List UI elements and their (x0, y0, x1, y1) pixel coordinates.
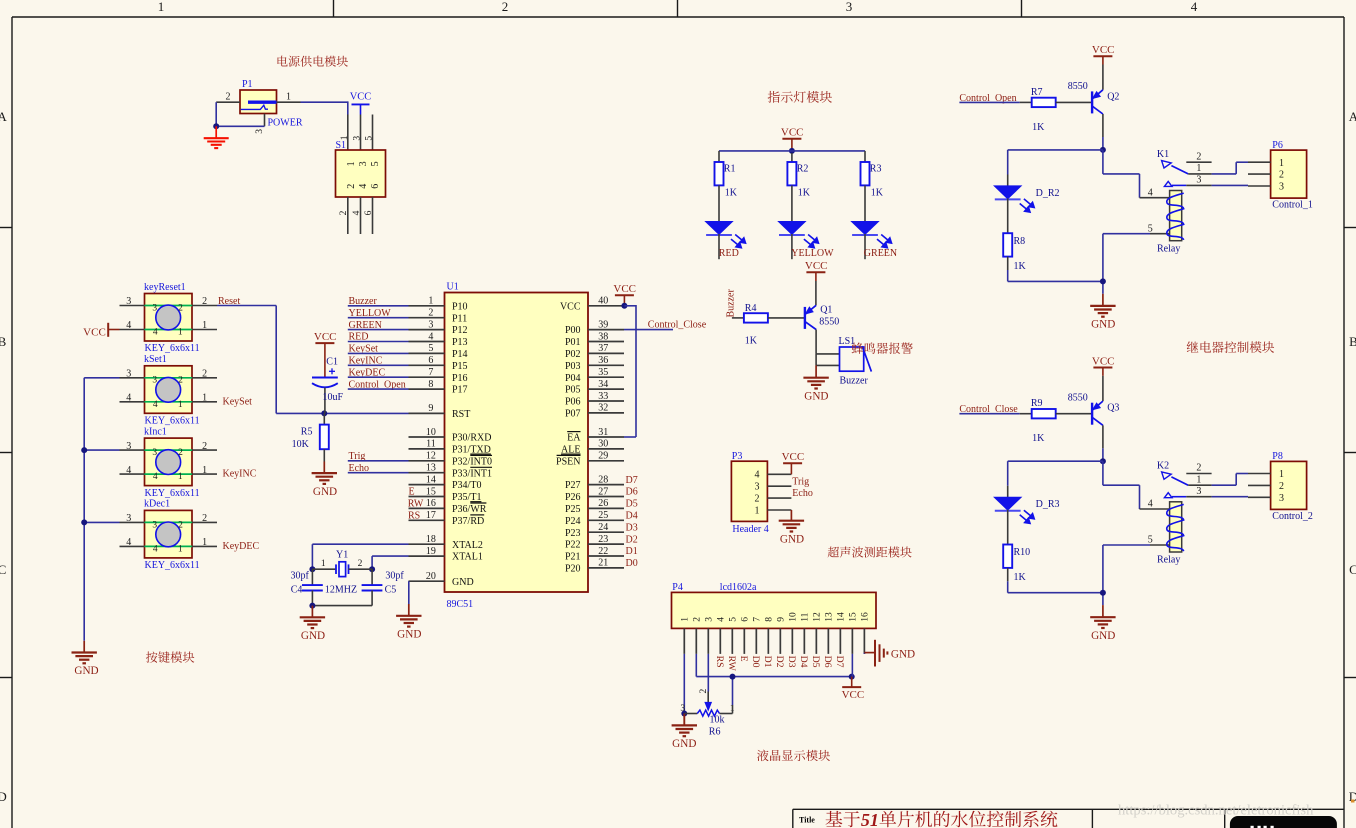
net label D5 (626, 499, 638, 510)
svg-text:3: 3 (353, 136, 363, 141)
svg-text:GND: GND (74, 665, 98, 677)
svg-text:P15: P15 (452, 361, 468, 372)
svg-text:P30/RXD: P30/RXD (452, 433, 491, 444)
net label Control_Close (648, 320, 707, 331)
wire RST row (276, 412, 408, 414)
svg-text:P14: P14 (452, 349, 468, 360)
net label KeyDEC (223, 541, 260, 552)
svg-text:Header 4: Header 4 (732, 524, 768, 535)
wire (1212, 184, 1248, 186)
svg-text:Buzzer: Buzzer (725, 289, 736, 318)
svg-text:Echo: Echo (792, 488, 813, 499)
svg-text:3: 3 (152, 448, 157, 458)
svg-text:30: 30 (598, 439, 608, 450)
svg-text:R7: R7 (1031, 87, 1043, 98)
net label GREEN (864, 248, 897, 259)
svg-text:3: 3 (126, 369, 131, 380)
net label KeySet (349, 344, 379, 355)
svg-text:30pf: 30pf (291, 571, 310, 582)
svg-text:P27: P27 (565, 480, 581, 491)
svg-text:3: 3 (755, 482, 760, 493)
resistor R4 (732, 303, 806, 347)
wire relay pin5 to ground node (1103, 234, 1150, 294)
wire (348, 341, 409, 343)
label 蜂鸣器报警 (852, 342, 913, 353)
svg-text:K1: K1 (1157, 149, 1169, 160)
svg-text:2: 2 (346, 184, 357, 189)
junction (81, 447, 87, 453)
relay K1 (1140, 149, 1212, 254)
svg-text:3: 3 (126, 296, 131, 307)
svg-text:P34/T0: P34/T0 (452, 480, 481, 491)
svg-text:KeyDEC: KeyDEC (223, 541, 260, 552)
svg-text:27: 27 (598, 486, 608, 497)
svg-text:R3: R3 (870, 164, 882, 175)
svg-text:2: 2 (202, 296, 207, 307)
wire (959, 413, 1019, 415)
ground GND (buzzer) (803, 365, 828, 402)
svg-text:34: 34 (598, 379, 608, 390)
svg-text:D6: D6 (822, 656, 833, 668)
net label KeyINC (349, 356, 383, 367)
svg-text:4: 4 (126, 320, 131, 331)
svg-text:RED: RED (719, 248, 739, 259)
svg-text:R6: R6 (709, 726, 721, 737)
svg-text:1: 1 (681, 617, 691, 622)
net label Control_Open (349, 379, 406, 390)
power port VCC (C1) (314, 331, 337, 377)
svg-text:C: C (1349, 562, 1356, 577)
wire VCC to EA (624, 305, 636, 437)
svg-text:D2: D2 (774, 656, 785, 668)
svg-text:51: 51 (861, 810, 879, 828)
svg-text:1: 1 (202, 320, 207, 331)
svg-text:1: 1 (202, 393, 207, 404)
net label D1 (rotated) (762, 656, 773, 668)
svg-text:3: 3 (255, 129, 265, 134)
wire to LED D_R3 (1008, 461, 1103, 486)
svg-text:GND: GND (804, 390, 828, 402)
junction (213, 123, 219, 129)
net label Buzzer (349, 296, 378, 307)
wire relay to P6 (1212, 162, 1248, 174)
svg-text:P12: P12 (452, 325, 468, 336)
wire Control_Close (624, 329, 673, 331)
module title 按键模块 (146, 651, 194, 662)
svg-text:kSet1: kSet1 (144, 354, 167, 365)
transistor Q3 (1068, 376, 1120, 449)
svg-text:8: 8 (428, 379, 433, 390)
svg-text:1K: 1K (1032, 433, 1045, 444)
svg-text:P25: P25 (565, 504, 581, 515)
svg-text:32: 32 (598, 403, 608, 414)
svg-text:3: 3 (126, 513, 131, 524)
svg-text:16: 16 (426, 498, 436, 509)
MCU U1 89C51 (409, 282, 625, 611)
svg-text:1: 1 (1196, 163, 1201, 174)
capacitor C4 (291, 569, 323, 605)
svg-text:VCC: VCC (1092, 44, 1115, 56)
svg-text:30pf: 30pf (385, 571, 404, 582)
net label RW (408, 499, 424, 510)
svg-text:6: 6 (364, 210, 374, 215)
svg-text:4: 4 (358, 184, 369, 189)
svg-text:P4: P4 (672, 582, 683, 593)
svg-text:4: 4 (153, 400, 158, 410)
svg-text:D7: D7 (626, 475, 638, 486)
svg-text:B: B (1349, 334, 1356, 349)
power port VCC (buzzer) (805, 260, 828, 281)
svg-text:Q3: Q3 (1107, 403, 1119, 414)
svg-text:2: 2 (428, 308, 433, 319)
wire P1 pin1 to S1 (301, 101, 348, 114)
svg-text:GND: GND (1091, 319, 1115, 331)
svg-text:4: 4 (755, 470, 760, 481)
junction (789, 148, 795, 154)
svg-text:D3: D3 (626, 522, 638, 533)
svg-text:KEY_6x6x11: KEY_6x6x11 (145, 488, 200, 499)
net label KeySet (223, 396, 253, 407)
svg-text:P11: P11 (452, 313, 467, 324)
power port VCC (Q2) (1092, 44, 1115, 65)
svg-text:R5: R5 (301, 426, 313, 437)
push button kSet1 (120, 354, 218, 426)
svg-text:P3: P3 (732, 451, 743, 462)
svg-text:D5: D5 (626, 499, 638, 510)
wire key common bus (84, 378, 119, 641)
svg-text:3: 3 (126, 441, 131, 452)
svg-text:P00: P00 (565, 325, 581, 336)
svg-text:VCC: VCC (1092, 355, 1115, 367)
svg-text:18: 18 (426, 534, 436, 545)
svg-text:11: 11 (426, 439, 436, 450)
svg-text:P22: P22 (565, 540, 581, 551)
svg-text:C1: C1 (326, 356, 338, 367)
svg-text:1: 1 (178, 328, 183, 338)
svg-text:D7: D7 (834, 656, 845, 668)
svg-text:3: 3 (152, 376, 157, 386)
module title 继电器控制模块 (1187, 341, 1274, 353)
net label Echo (349, 463, 370, 474)
svg-text:P05: P05 (565, 385, 581, 396)
svg-text:D3: D3 (786, 656, 797, 668)
svg-text:1: 1 (202, 537, 207, 548)
wire P4 pin15 down (851, 654, 853, 677)
svg-text:10uF: 10uF (323, 392, 344, 403)
junction (1100, 458, 1106, 464)
svg-text:1: 1 (340, 135, 350, 140)
net label D5 (rotated) (810, 656, 821, 668)
svg-text:2: 2 (1279, 481, 1284, 492)
svg-text:E: E (409, 487, 415, 498)
svg-text:D_R2: D_R2 (1036, 188, 1060, 199)
svg-text:kDec1: kDec1 (144, 499, 170, 510)
svg-text:14: 14 (837, 612, 847, 622)
svg-text:2: 2 (1196, 151, 1201, 162)
svg-text:10: 10 (789, 612, 799, 622)
ground GND (C4) (300, 606, 325, 642)
wire P4 pin16 to ground (863, 653, 865, 654)
svg-text:1: 1 (202, 465, 207, 476)
svg-text:11: 11 (801, 612, 811, 621)
svg-text:31: 31 (598, 427, 608, 438)
power ground (red) (204, 126, 229, 148)
svg-text:23: 23 (598, 534, 608, 545)
svg-text:VCC: VCC (613, 283, 636, 295)
resistor R9 (1020, 398, 1092, 444)
svg-text:3: 3 (152, 303, 157, 313)
net label D7 (626, 475, 638, 486)
svg-text:1: 1 (178, 400, 183, 410)
value 12MHZ (325, 585, 357, 596)
svg-text:VCC: VCC (782, 451, 805, 463)
svg-text:33: 33 (598, 391, 608, 402)
svg-text:P37/RD: P37/RD (452, 516, 484, 527)
junction (309, 603, 315, 609)
svg-text:RST: RST (452, 409, 470, 420)
svg-text:Relay: Relay (1157, 555, 1180, 566)
svg-text:10K: 10K (292, 439, 310, 450)
resistor R2 (787, 162, 810, 222)
svg-text:17: 17 (426, 510, 436, 521)
svg-text:B: B (0, 334, 7, 349)
svg-text:D: D (0, 789, 7, 804)
svg-text:4: 4 (352, 210, 362, 215)
net label Echo (792, 488, 813, 499)
potentiometer R6 (680, 689, 735, 738)
svg-text:89C51: 89C51 (447, 599, 474, 610)
svg-text:lcd1602a: lcd1602a (720, 582, 757, 593)
resistor R3 (861, 162, 884, 222)
connector P8 (1248, 451, 1313, 522)
wire XTAL2 (312, 544, 408, 569)
ground GND (U1 pin20) (396, 604, 421, 641)
svg-text:2: 2 (226, 92, 231, 103)
svg-text:kInc1: kInc1 (144, 426, 167, 437)
svg-text:4: 4 (126, 537, 131, 548)
svg-text:21: 21 (598, 558, 608, 569)
power port VCC (U1 pin40) (613, 283, 636, 306)
power port VCC (Q3) (1092, 355, 1115, 376)
svg-text:38: 38 (598, 331, 608, 342)
wire (959, 101, 1019, 103)
power port VCC (LED module) (781, 127, 804, 151)
wire collector node (1102, 448, 1104, 461)
svg-text:P06: P06 (565, 397, 581, 408)
svg-text:R2: R2 (797, 164, 809, 175)
svg-text:4: 4 (153, 472, 158, 482)
svg-text:GND: GND (452, 577, 474, 588)
svg-text:Title: Title (799, 815, 815, 824)
svg-text:D0: D0 (626, 558, 638, 569)
svg-text:5: 5 (365, 136, 375, 141)
svg-text:Control_1: Control_1 (1272, 200, 1313, 211)
svg-text:39: 39 (598, 319, 608, 330)
svg-text:RS: RS (714, 656, 725, 668)
svg-text:Q1: Q1 (820, 305, 832, 316)
wire (348, 352, 409, 354)
svg-text:24: 24 (598, 522, 608, 533)
net label RED (349, 332, 369, 343)
capacitor C1 (312, 356, 344, 413)
wire relay to P8 (1212, 474, 1248, 486)
svg-text:P21: P21 (565, 552, 581, 563)
push button kInc1 (120, 426, 218, 498)
svg-text:9: 9 (777, 617, 787, 622)
svg-text:U1: U1 (447, 282, 459, 293)
net label D4 (rotated) (798, 656, 809, 668)
svg-text:15: 15 (849, 612, 859, 622)
wire crystal ground link (312, 605, 372, 607)
net label KeyDEC (349, 367, 386, 378)
wire (348, 388, 409, 390)
net label D6 (rotated) (822, 656, 833, 668)
svg-text:KEY_6x6x11: KEY_6x6x11 (145, 560, 200, 571)
svg-text:1: 1 (321, 559, 326, 569)
junction (81, 519, 87, 525)
svg-text:KEY_6x6x11: KEY_6x6x11 (145, 343, 200, 354)
svg-text:1: 1 (286, 92, 291, 103)
net label D0 (rotated) (750, 656, 761, 668)
wire (348, 460, 409, 462)
title block (793, 809, 1344, 828)
svg-text:2: 2 (178, 448, 183, 458)
svg-text:R8: R8 (1014, 236, 1026, 247)
svg-text:P02: P02 (565, 349, 581, 360)
svg-text:1: 1 (1196, 474, 1201, 485)
svg-text:R9: R9 (1031, 398, 1043, 409)
svg-text:10: 10 (426, 427, 436, 438)
ground GND (key module) (72, 641, 99, 677)
svg-text:13: 13 (825, 612, 835, 622)
svg-text:8550: 8550 (819, 317, 839, 328)
svg-text:GREEN: GREEN (864, 248, 897, 259)
svg-text:VCC: VCC (314, 331, 337, 343)
svg-text:P1: P1 (242, 79, 253, 90)
svg-text:EA: EA (567, 433, 581, 444)
svg-text:2: 2 (178, 520, 183, 530)
svg-text:1K: 1K (798, 188, 811, 199)
ground GND (R5) (312, 462, 338, 498)
net label Control_Close (959, 404, 1018, 415)
svg-text:5: 5 (370, 161, 381, 166)
svg-text:4: 4 (1148, 499, 1153, 510)
net label D7 (rotated) (834, 656, 845, 668)
svg-text:RW: RW (726, 656, 737, 672)
svg-text:P6: P6 (1272, 140, 1283, 151)
LED RED (706, 222, 746, 260)
svg-text:22: 22 (598, 546, 608, 557)
wire P4 pin1 to ground (683, 654, 685, 714)
svg-text:D1: D1 (762, 656, 773, 668)
resistor R5 (292, 413, 329, 461)
svg-text:25: 25 (598, 510, 608, 521)
svg-text:P10: P10 (452, 301, 468, 312)
ground GND (P4 pin16, rotated) (864, 640, 915, 667)
net label D4 (626, 511, 638, 522)
svg-text:VCC: VCC (560, 301, 581, 312)
svg-text:1: 1 (178, 472, 183, 482)
wire R6 pin1 up to rail (732, 677, 734, 705)
svg-text:P16: P16 (452, 373, 468, 384)
wire (348, 305, 409, 307)
net label Trig (792, 476, 809, 487)
svg-text:GND: GND (780, 533, 804, 545)
svg-text:3: 3 (705, 617, 715, 622)
svg-text:XTAL2: XTAL2 (452, 540, 483, 551)
module title 电源供电模块 (278, 56, 348, 67)
svg-text:D5: D5 (810, 656, 821, 668)
net label E (409, 487, 415, 498)
LED D_R3 (995, 486, 1060, 545)
svg-text:3: 3 (358, 161, 369, 166)
svg-text:2: 2 (202, 441, 207, 452)
wire (348, 376, 409, 378)
svg-text:D1: D1 (626, 546, 638, 557)
svg-text:P23: P23 (565, 528, 581, 539)
svg-text:1K: 1K (1014, 572, 1027, 583)
svg-text:3: 3 (846, 0, 853, 14)
svg-text:P13: P13 (452, 337, 468, 348)
wire P1 pin2/pin3 to ground (216, 102, 264, 126)
wire collector to relay pin4 (1103, 150, 1140, 198)
transistor Q2 (1068, 65, 1120, 138)
svg-text:1K: 1K (745, 336, 758, 347)
svg-text:4: 4 (1191, 0, 1198, 14)
net label Control_Open (959, 93, 1016, 104)
wire collector node (1102, 137, 1104, 150)
LED YELLOW (779, 222, 819, 260)
net label RS (408, 511, 420, 522)
svg-text:6: 6 (428, 355, 433, 366)
svg-text:6: 6 (741, 617, 751, 622)
resistor R10 (1003, 545, 1030, 584)
svg-text:15: 15 (426, 486, 436, 497)
power port VCC (key module) (83, 323, 119, 339)
svg-text:A: A (1349, 109, 1356, 124)
svg-text:5: 5 (1148, 223, 1153, 234)
net label YELLOW (349, 308, 392, 319)
svg-text:3: 3 (152, 520, 157, 530)
svg-text:KEY_6x6x11: KEY_6x6x11 (145, 416, 200, 427)
svg-text:3: 3 (680, 704, 685, 714)
svg-text:P03: P03 (565, 361, 581, 372)
svg-text:2: 2 (202, 369, 207, 380)
svg-text:RW: RW (408, 499, 424, 510)
svg-text:C: C (0, 562, 6, 577)
svg-text:40: 40 (598, 296, 608, 307)
junction (369, 566, 375, 572)
svg-text:Relay: Relay (1157, 243, 1180, 254)
svg-text:19: 19 (426, 546, 436, 557)
svg-text:D6: D6 (626, 487, 638, 498)
svg-text:4: 4 (153, 328, 158, 338)
net label GREEN (349, 320, 382, 331)
svg-text:1K: 1K (1032, 122, 1045, 133)
svg-text:KeySet: KeySet (223, 396, 253, 407)
svg-text:35: 35 (598, 367, 608, 378)
svg-text:RS: RS (408, 511, 420, 522)
wire LED branch to ground node (1008, 581, 1103, 592)
svg-text:D0: D0 (750, 656, 761, 668)
junction (681, 711, 687, 717)
svg-text:12: 12 (813, 612, 823, 622)
svg-text:2: 2 (178, 303, 183, 313)
wire (348, 364, 409, 366)
svg-text:20: 20 (426, 571, 436, 582)
svg-text:VCC: VCC (83, 326, 106, 338)
svg-text:9: 9 (428, 403, 433, 414)
